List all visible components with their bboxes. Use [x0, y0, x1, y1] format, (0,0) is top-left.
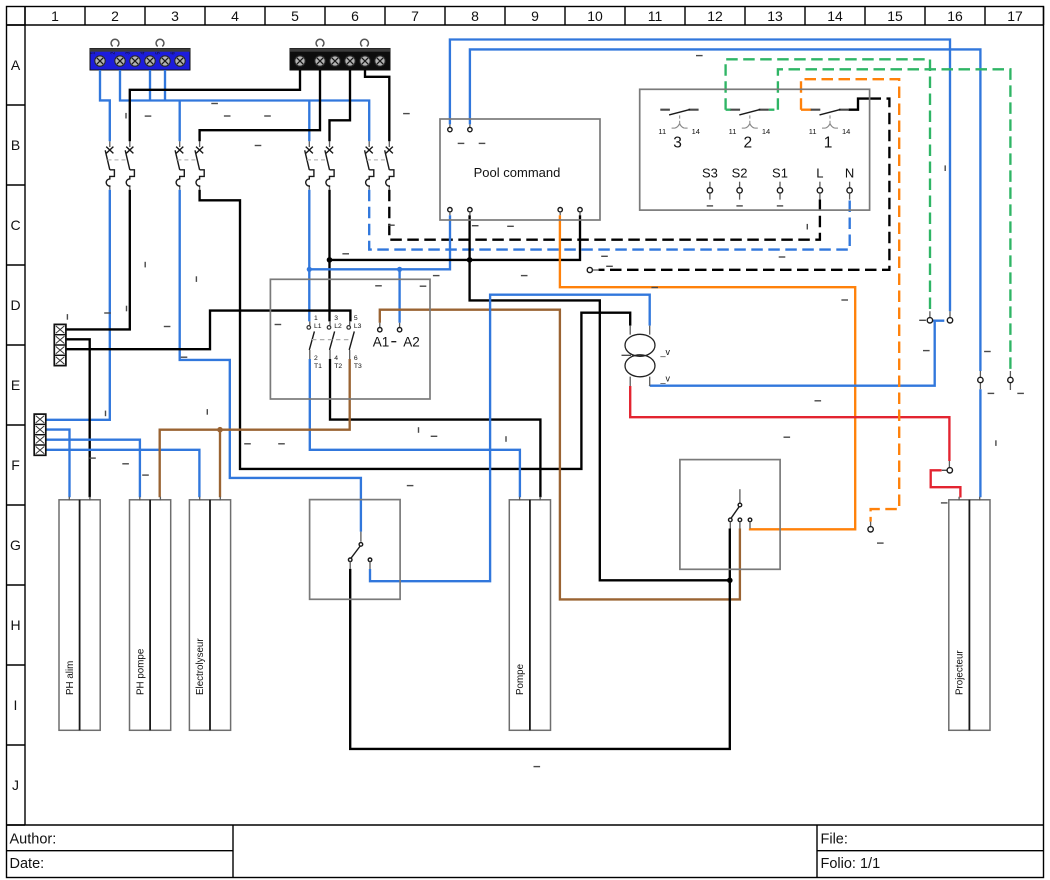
- svg-text:17: 17: [1007, 8, 1023, 24]
- svg-text:2: 2: [314, 355, 318, 362]
- svg-text:11: 11: [648, 8, 663, 24]
- svg-text:4: 4: [231, 8, 239, 24]
- svg-text:1: 1: [824, 135, 833, 152]
- svg-text:H: H: [10, 617, 20, 633]
- svg-text:3: 3: [326, 52, 332, 55]
- svg-text:1: 1: [291, 52, 297, 55]
- svg-text:6: 6: [354, 355, 358, 362]
- svg-text:3: 3: [171, 8, 179, 24]
- svg-text:3: 3: [334, 315, 338, 322]
- svg-text:Author:: Author:: [10, 832, 57, 848]
- svg-text:6: 6: [171, 52, 177, 55]
- svg-text:6: 6: [371, 52, 377, 55]
- svg-text:_v: _v: [660, 347, 671, 357]
- svg-text:T1: T1: [314, 363, 322, 370]
- svg-text:D: D: [10, 297, 20, 313]
- svg-text:A1: A1: [373, 334, 390, 349]
- svg-text:2: 2: [743, 135, 752, 152]
- svg-text:10: 10: [587, 8, 603, 24]
- svg-text:Projecteur: Projecteur: [955, 650, 966, 695]
- svg-text:Folio: 1/1: Folio: 1/1: [821, 856, 881, 872]
- svg-text:1: 1: [91, 52, 97, 55]
- svg-text:2: 2: [311, 52, 317, 55]
- svg-text:F: F: [11, 457, 20, 473]
- svg-text:B: B: [11, 137, 20, 153]
- svg-text:12: 12: [707, 8, 723, 24]
- svg-text:I: I: [14, 697, 18, 713]
- svg-text:2: 2: [111, 52, 117, 55]
- svg-text:Pool command: Pool command: [474, 165, 561, 180]
- svg-text:1: 1: [314, 315, 318, 322]
- svg-text:S1: S1: [772, 165, 788, 180]
- svg-text:L2: L2: [334, 323, 342, 330]
- svg-text:E: E: [11, 377, 20, 393]
- svg-text:2: 2: [111, 8, 119, 24]
- svg-text:11: 11: [658, 127, 666, 136]
- svg-text:T3: T3: [354, 363, 362, 370]
- svg-text:Pompe: Pompe: [515, 663, 526, 695]
- svg-text:7: 7: [411, 8, 419, 24]
- svg-text:J: J: [12, 777, 19, 793]
- svg-text:A: A: [11, 57, 21, 73]
- svg-text:14: 14: [762, 127, 770, 136]
- svg-text:11: 11: [729, 127, 737, 136]
- svg-text:4: 4: [141, 52, 147, 55]
- svg-text:L: L: [816, 165, 823, 180]
- svg-text:6: 6: [351, 8, 359, 24]
- svg-text:5: 5: [356, 52, 362, 55]
- svg-text:16: 16: [947, 8, 963, 24]
- svg-text:15: 15: [887, 8, 903, 24]
- svg-text:Electrolyseur: Electrolyseur: [195, 638, 206, 695]
- svg-text:9: 9: [531, 8, 539, 24]
- svg-text:14: 14: [692, 127, 700, 136]
- svg-text:3: 3: [126, 52, 132, 55]
- svg-text:PH pompe: PH pompe: [135, 648, 146, 695]
- svg-text:PH alim: PH alim: [65, 661, 76, 695]
- svg-text:T2: T2: [334, 363, 342, 370]
- svg-text:14: 14: [842, 127, 850, 136]
- svg-text:C: C: [10, 217, 20, 233]
- svg-text:4: 4: [334, 355, 338, 362]
- svg-text:L1: L1: [314, 323, 322, 330]
- svg-text:G: G: [10, 537, 21, 553]
- svg-text:L3: L3: [354, 323, 362, 330]
- svg-text:8: 8: [471, 8, 479, 24]
- svg-text:1: 1: [51, 8, 59, 24]
- svg-text:5: 5: [156, 52, 162, 55]
- svg-text:A2: A2: [403, 334, 420, 349]
- svg-text:5: 5: [354, 315, 358, 322]
- svg-text:File:: File:: [821, 832, 848, 848]
- svg-text:S2: S2: [732, 165, 748, 180]
- svg-text:Date:: Date:: [10, 856, 45, 872]
- svg-text:11: 11: [809, 127, 817, 136]
- svg-text:N: N: [845, 165, 854, 180]
- svg-text:_v: _v: [660, 374, 671, 384]
- svg-text:3: 3: [673, 135, 682, 152]
- svg-text:14: 14: [827, 8, 843, 24]
- svg-text:13: 13: [767, 8, 783, 24]
- svg-text:4: 4: [341, 52, 347, 55]
- svg-text:5: 5: [291, 8, 299, 24]
- svg-text:S3: S3: [702, 165, 718, 180]
